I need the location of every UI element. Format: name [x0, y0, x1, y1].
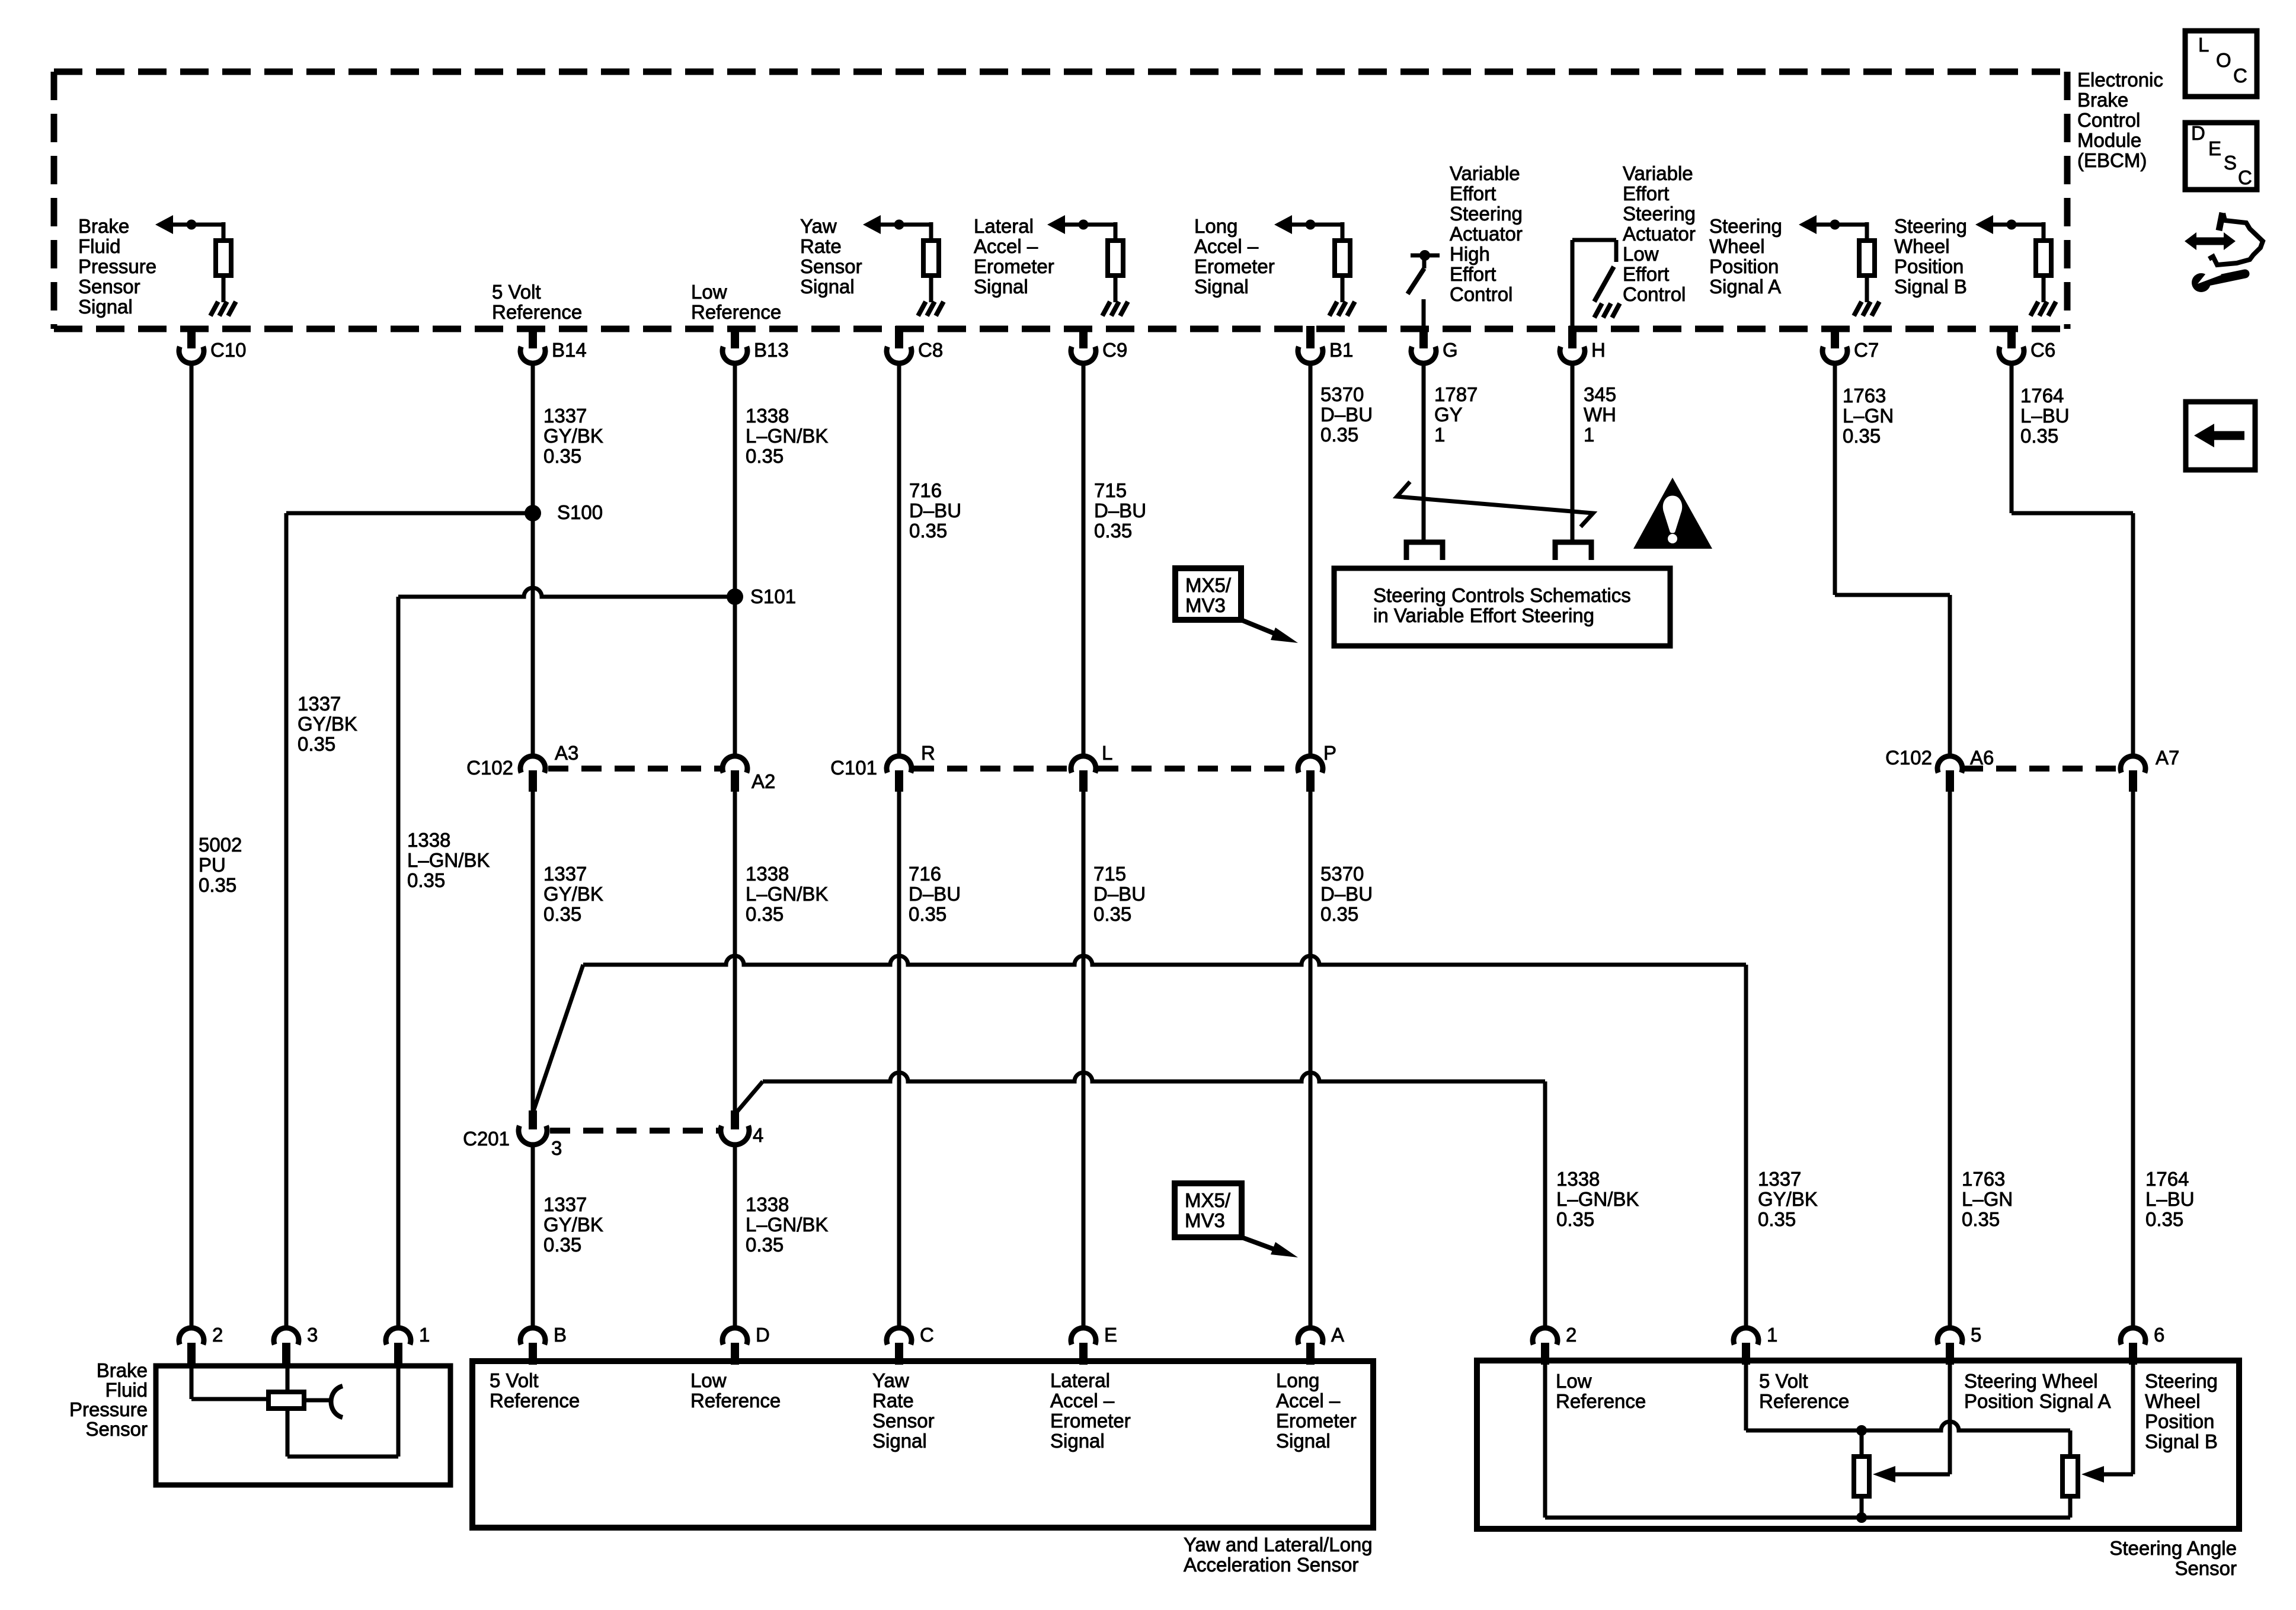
svg-text:0.35: 0.35: [543, 903, 581, 925]
switch G high effort: [1411, 254, 1440, 258]
wire: [1114, 222, 1118, 238]
svg-text:Sensor: Sensor: [800, 255, 862, 277]
svg-text:1338: 1338: [1556, 1168, 1600, 1190]
svg-text:Effort: Effort: [1450, 263, 1496, 285]
svg-text:4: 4: [753, 1124, 763, 1146]
svg-text:0.35: 0.35: [1094, 520, 1132, 542]
svg-text:Control: Control: [1623, 283, 1686, 305]
sensor connector pin B: [520, 1328, 545, 1345]
splice S101: [727, 588, 743, 605]
svg-text:C: C: [2238, 167, 2252, 188]
svg-text:1: 1: [1767, 1324, 1777, 1346]
svg-text:L–GN: L–GN: [1962, 1188, 2013, 1210]
resistor at B1 tap: [1335, 241, 1350, 276]
svg-text:Low: Low: [1556, 1370, 1592, 1392]
svg-text:L–GN/BK: L–GN/BK: [1556, 1188, 1639, 1210]
svg-text:B1: B1: [1329, 339, 1353, 361]
svg-text:Signal B: Signal B: [2145, 1430, 2218, 1452]
svg-text:Steering: Steering: [1894, 215, 1967, 237]
DESC icon box: [2185, 123, 2257, 190]
svg-text:L–GN: L–GN: [1843, 405, 1894, 427]
svg-text:Sensor: Sensor: [872, 1410, 935, 1432]
EBCM connector pin B14: [529, 326, 537, 348]
svg-text:L–BU: L–BU: [2020, 405, 2070, 427]
svg-text:5370: 5370: [1320, 383, 1364, 405]
svg-text:1337: 1337: [298, 693, 341, 715]
dashed connector line C201: [550, 1128, 718, 1134]
svg-text:(EBCM): (EBCM): [2077, 149, 2147, 171]
resistor at C7 tap: [1859, 241, 1875, 276]
svg-text:1: 1: [1434, 424, 1445, 446]
C201 pin 3: [529, 1110, 537, 1129]
svg-text:5: 5: [1971, 1324, 1981, 1346]
svg-text:Effort: Effort: [1623, 183, 1669, 204]
crossover arrow between G and H: [1397, 482, 1593, 527]
svg-text:Reference: Reference: [1556, 1390, 1646, 1412]
svg-text:Effort: Effort: [1450, 183, 1496, 204]
sensor connector pin A: [1298, 1328, 1323, 1345]
svg-text:1337: 1337: [1758, 1168, 1801, 1190]
svg-text:0.35: 0.35: [1758, 1208, 1796, 1230]
svg-text:G: G: [1443, 339, 1458, 361]
svg-text:Reference: Reference: [492, 301, 582, 323]
svg-text:D: D: [756, 1324, 770, 1346]
wire C7 jog: [1833, 361, 1837, 595]
svg-text:5 Volt: 5 Volt: [1759, 1370, 1808, 1392]
svg-text:S: S: [2224, 152, 2237, 174]
wire G to steering controls: [1422, 361, 1426, 541]
dashed connector line C102 A6-A7: [1963, 766, 2120, 772]
svg-text:Fluid: Fluid: [78, 235, 121, 257]
svg-text:Effort: Effort: [1623, 263, 1669, 285]
svg-text:E: E: [1104, 1324, 1117, 1346]
wire A2 to C201 pin 4: [733, 792, 737, 1113]
wire C6 jog: [2010, 361, 2014, 513]
resistor at C6 tap: [2036, 241, 2051, 276]
svg-text:C102: C102: [466, 757, 513, 779]
svg-text:PU: PU: [199, 854, 226, 876]
svg-text:0.35: 0.35: [543, 445, 581, 467]
sensor connector pin 6: [2121, 1328, 2145, 1345]
wire C10 to sensor pin 2: [190, 361, 194, 1329]
wire: [2042, 222, 2046, 238]
svg-text:2: 2: [1566, 1324, 1576, 1346]
Brake Fluid Pressure Sensor box: [156, 1366, 450, 1485]
svg-text:Fluid: Fluid: [105, 1379, 148, 1401]
svg-text:1338: 1338: [746, 863, 789, 885]
svg-text:Signal A: Signal A: [1709, 276, 1781, 297]
warning triangle: [1633, 478, 1712, 549]
svg-text:GY/BK: GY/BK: [1758, 1188, 1818, 1210]
ground at B1 tap: [1329, 302, 1337, 316]
wire: [222, 278, 226, 302]
ground at C8 tap: [918, 302, 926, 316]
sensor connector pin 2: [179, 1328, 204, 1345]
C102 pin A6: [1937, 756, 1962, 773]
svg-text:5002: 5002: [199, 834, 242, 856]
svg-text:1763: 1763: [1843, 385, 1886, 406]
resistor at C8 tap: [923, 241, 939, 276]
svg-text:5370: 5370: [1320, 863, 1364, 885]
svg-text:S100: S100: [557, 501, 603, 523]
svg-text:B14: B14: [552, 339, 587, 361]
sensor connector pin D: [722, 1328, 747, 1345]
svg-text:Sensor: Sensor: [85, 1418, 148, 1440]
svg-text:Brake: Brake: [78, 215, 129, 237]
node at C9: [1079, 220, 1089, 230]
EBCM module dashed box: [54, 69, 2067, 75]
svg-text:C7: C7: [1854, 339, 1879, 361]
svg-text:1338: 1338: [407, 829, 450, 851]
svg-text:C: C: [2233, 65, 2247, 87]
pressure sensing resistor: [268, 1392, 304, 1409]
wire: [929, 278, 933, 302]
svg-text:MV3: MV3: [1185, 1209, 1225, 1231]
svg-text:C9: C9: [1102, 339, 1127, 361]
svg-text:Wheel: Wheel: [1894, 235, 1950, 257]
node at C7: [1830, 220, 1840, 230]
EBCM connector pin C9: [1079, 326, 1088, 348]
svg-text:MV3: MV3: [1185, 594, 1226, 616]
svg-text:Position: Position: [1709, 255, 1779, 277]
svg-text:B13: B13: [754, 339, 789, 361]
svg-text:Rate: Rate: [872, 1390, 914, 1411]
svg-text:C6: C6: [2030, 339, 2055, 361]
Steering Angle Sensor box: [1477, 1361, 2239, 1529]
dashed connector line C101 L-P: [1098, 766, 1296, 772]
svg-text:Accel –: Accel –: [1050, 1390, 1115, 1411]
svg-text:GY/BK: GY/BK: [298, 713, 357, 735]
splice S100: [525, 505, 541, 521]
svg-text:Low: Low: [690, 1369, 727, 1391]
svg-text:Erometer: Erometer: [1276, 1410, 1357, 1432]
svg-text:Sensor: Sensor: [2175, 1557, 2237, 1579]
svg-text:L: L: [2198, 34, 2209, 56]
C10 signal tap arrow: [172, 223, 223, 227]
svg-text:2: 2: [212, 1324, 223, 1346]
dashed connector line C101 R-L: [914, 766, 1069, 772]
wire A3 to C201 pin 3: [531, 792, 535, 1113]
svg-text:Steering: Steering: [2145, 1370, 2218, 1392]
svg-text:C101: C101: [830, 757, 877, 779]
svg-text:C8: C8: [918, 339, 943, 361]
svg-text:0.35: 0.35: [1962, 1208, 2000, 1230]
svg-text:Steering Angle: Steering Angle: [2109, 1537, 2237, 1559]
wire B14 to C102 A3: [531, 361, 535, 757]
Yaw and Lateral/Long Acceleration Sensor box: [472, 1361, 1373, 1528]
svg-text:716: 716: [909, 863, 941, 885]
svg-text:D–BU: D–BU: [1320, 404, 1373, 425]
svg-text:MX5/: MX5/: [1185, 1189, 1231, 1211]
svg-text:Brake: Brake: [2077, 89, 2128, 111]
svg-text:Variable: Variable: [1623, 162, 1693, 184]
svg-text:0.35: 0.35: [746, 903, 784, 925]
svg-text:1: 1: [419, 1324, 430, 1346]
svg-text:H: H: [1591, 339, 1606, 361]
wire A7 to steering pin 6: [2131, 792, 2135, 1329]
MX5/MV3 callout box 2: [1175, 1183, 1242, 1237]
svg-text:Control: Control: [2077, 109, 2140, 131]
svg-text:Signal: Signal: [974, 276, 1028, 297]
ground at switch H: [1594, 303, 1602, 318]
svg-text:0.35: 0.35: [1093, 903, 1131, 925]
svg-text:Control: Control: [1450, 283, 1512, 305]
svg-text:Wheel: Wheel: [2145, 1390, 2201, 1412]
svg-text:Reference: Reference: [1759, 1390, 1849, 1412]
svg-text:Position: Position: [2145, 1410, 2214, 1432]
svg-text:1763: 1763: [1962, 1168, 2005, 1190]
svg-text:Signal: Signal: [1276, 1430, 1331, 1452]
ground at C10 tap: [210, 302, 218, 316]
svg-text:Steering: Steering: [1450, 203, 1523, 225]
svg-text:1764: 1764: [2145, 1168, 2189, 1190]
wire H to steering controls: [1571, 361, 1575, 541]
svg-text:L–BU: L–BU: [2145, 1188, 2195, 1210]
svg-text:Pressure: Pressure: [69, 1398, 148, 1420]
svg-text:5 Volt: 5 Volt: [490, 1369, 539, 1391]
svg-text:Erometer: Erometer: [974, 255, 1054, 277]
wire S101 branch: [398, 588, 735, 597]
svg-text:P: P: [1323, 742, 1336, 764]
svg-text:Steering: Steering: [1623, 203, 1696, 225]
C101 pin R: [887, 756, 912, 773]
svg-text:Sensor: Sensor: [78, 276, 140, 297]
C6 signal tap arrow: [1993, 223, 2044, 227]
wiper A from pin 5: [1948, 1365, 1952, 1474]
svg-text:D–BU: D–BU: [1093, 883, 1146, 905]
svg-text:Wheel: Wheel: [1709, 235, 1765, 257]
svg-text:1787: 1787: [1434, 383, 1478, 405]
svg-text:Accel –: Accel –: [1194, 235, 1259, 257]
svg-text:D: D: [2191, 122, 2205, 144]
svg-text:3: 3: [551, 1137, 562, 1159]
svg-text:Reference: Reference: [691, 301, 781, 323]
node at C6: [2007, 220, 2017, 230]
svg-text:Low: Low: [691, 281, 727, 303]
EBCM connector pin G: [1419, 326, 1428, 348]
adjust icon wrench: [2202, 274, 2245, 283]
svg-text:Signal: Signal: [800, 276, 855, 297]
C9 signal tap arrow: [1064, 223, 1115, 227]
LOC icon box: [2185, 31, 2257, 97]
svg-text:D–BU: D–BU: [1094, 500, 1146, 521]
svg-text:0.35: 0.35: [1843, 425, 1881, 447]
svg-text:Erometer: Erometer: [1050, 1410, 1131, 1432]
C201 pin 4: [731, 1110, 739, 1129]
adjust icon outline: [2219, 213, 2223, 231]
svg-text:O: O: [2216, 49, 2231, 71]
pressure port symbol: [331, 1386, 343, 1417]
svg-text:Steering Wheel: Steering Wheel: [1964, 1370, 2098, 1392]
svg-text:C10: C10: [210, 339, 247, 361]
svg-text:Yaw and Lateral/Long: Yaw and Lateral/Long: [1184, 1534, 1373, 1555]
svg-text:Yaw: Yaw: [872, 1369, 909, 1391]
svg-text:High: High: [1450, 243, 1490, 265]
wiper B from pin 6: [2131, 1365, 2135, 1474]
svg-text:0.35: 0.35: [1320, 424, 1358, 446]
svg-text:1337: 1337: [543, 1193, 587, 1215]
svg-text:0.35: 0.35: [1320, 903, 1358, 925]
svg-text:Signal: Signal: [1050, 1430, 1105, 1452]
wire C9 to C101 L: [1082, 361, 1086, 757]
svg-text:716: 716: [909, 479, 942, 501]
svg-text:in Variable Effort Steering: in Variable Effort Steering: [1373, 604, 1594, 626]
svg-text:Position Signal A: Position Signal A: [1964, 1390, 2111, 1412]
internal: low reference bus: [1543, 1365, 1547, 1518]
svg-text:5 Volt: 5 Volt: [492, 281, 541, 303]
svg-text:0.35: 0.35: [909, 903, 946, 925]
node at B1: [1306, 220, 1316, 230]
resistor at C10 tap: [216, 241, 231, 276]
svg-text:0.35: 0.35: [407, 869, 445, 891]
potentiometer B: [2062, 1457, 2078, 1496]
svg-text:L–GN/BK: L–GN/BK: [746, 1214, 828, 1235]
svg-text:0.35: 0.35: [746, 445, 784, 467]
potentiometer A: [1854, 1457, 1869, 1496]
svg-text:0.35: 0.35: [746, 1234, 784, 1256]
wire: [929, 222, 933, 238]
svg-text:Signal: Signal: [872, 1430, 927, 1452]
svg-text:0.35: 0.35: [543, 1234, 581, 1256]
wire: [1865, 222, 1869, 238]
node at C8: [894, 220, 904, 230]
terminal bracket G: [1406, 542, 1443, 560]
svg-text:C201: C201: [463, 1128, 510, 1150]
svg-text:Rate: Rate: [800, 235, 842, 257]
svg-text:1337: 1337: [543, 405, 587, 427]
C102 pin A2: [722, 756, 747, 773]
svg-text:A6: A6: [1970, 747, 1994, 769]
wire C201 pin3 to sensor pin B: [531, 1144, 535, 1329]
svg-text:Reference: Reference: [690, 1390, 781, 1411]
wire R to sensor pin C: [897, 792, 901, 1329]
svg-text:L–GN/BK: L–GN/BK: [746, 425, 828, 447]
svg-text:R: R: [921, 742, 935, 764]
svg-text:Long: Long: [1276, 1369, 1319, 1391]
svg-text:A3: A3: [555, 742, 578, 764]
wire P to sensor pin A: [1309, 792, 1313, 1329]
sensor connector pin 1: [1734, 1328, 1758, 1345]
svg-text:0.35: 0.35: [2145, 1208, 2183, 1230]
callout arrow 2: [1242, 1237, 1280, 1251]
svg-text:Signal: Signal: [78, 296, 133, 318]
svg-text:Lateral: Lateral: [1050, 1369, 1110, 1391]
svg-text:Actuator: Actuator: [1450, 223, 1523, 245]
resistor at C9 tap: [1108, 241, 1123, 276]
wire: [1114, 278, 1118, 302]
svg-text:S101: S101: [750, 585, 796, 607]
svg-text:Signal B: Signal B: [1894, 276, 1967, 297]
C102 pin A3: [520, 756, 545, 773]
C102 pin A7: [2121, 756, 2145, 773]
svg-text:Acceleration Sensor: Acceleration Sensor: [1184, 1554, 1358, 1576]
svg-text:6: 6: [2154, 1324, 2164, 1346]
wire A6 to steering pin 5: [1948, 792, 1952, 1329]
wire B1 to C101 P: [1309, 361, 1313, 757]
svg-text:715: 715: [1094, 479, 1127, 501]
wire L to sensor pin E: [1082, 792, 1086, 1329]
wire: [2042, 278, 2046, 302]
terminal bracket H: [1555, 542, 1591, 560]
svg-text:3: 3: [307, 1324, 318, 1346]
svg-text:1338: 1338: [746, 1193, 789, 1215]
svg-text:D–BU: D–BU: [909, 883, 961, 905]
svg-text:D–BU: D–BU: [909, 500, 961, 521]
svg-text:0.35: 0.35: [1556, 1208, 1594, 1230]
svg-text:L–GN/BK: L–GN/BK: [407, 849, 490, 871]
svg-text:A2: A2: [752, 770, 775, 792]
svg-text:1: 1: [1584, 424, 1594, 446]
EBCM connector pin C10: [187, 326, 196, 348]
adjust icon double arrow: [2193, 238, 2227, 245]
EBCM connector pin B1: [1306, 326, 1315, 348]
B1 signal tap arrow: [1291, 223, 1342, 227]
sensor connector pin 2: [1533, 1328, 1558, 1345]
svg-text:Lateral: Lateral: [974, 215, 1034, 237]
callout arrow 1: [1241, 620, 1280, 636]
C101 pin L: [1071, 756, 1096, 773]
svg-text:A7: A7: [2156, 747, 2179, 769]
ground at C9 tap: [1102, 302, 1110, 316]
svg-text:GY/BK: GY/BK: [543, 425, 603, 447]
wire S100 branch: [286, 511, 533, 516]
EBCM connector pin C8: [895, 326, 903, 348]
svg-text:1337: 1337: [543, 863, 587, 885]
ground at C6 tap: [2030, 302, 2038, 316]
C101 pin P: [1298, 756, 1323, 773]
svg-text:Variable: Variable: [1450, 162, 1520, 184]
MX5/MV3 callout box 1: [1175, 568, 1241, 620]
EBCM connector pin B13: [731, 326, 739, 348]
svg-text:GY: GY: [1434, 404, 1463, 425]
svg-text:1764: 1764: [2020, 385, 2064, 406]
svg-text:Electronic: Electronic: [2077, 69, 2163, 91]
svg-text:0.35: 0.35: [199, 874, 236, 896]
svg-text:L: L: [1102, 742, 1112, 764]
wire: [222, 222, 226, 238]
wire: [1865, 278, 1869, 302]
svg-text:C: C: [920, 1324, 934, 1346]
sensor connector pin E: [1071, 1328, 1096, 1345]
svg-text:Brake: Brake: [97, 1359, 148, 1381]
switch H low effort: [1571, 240, 1575, 329]
svg-text:Position: Position: [1894, 255, 1964, 277]
svg-text:1338: 1338: [746, 405, 789, 427]
svg-text:D–BU: D–BU: [1320, 883, 1373, 905]
sensor internal wires: [190, 1365, 194, 1399]
svg-text:Yaw: Yaw: [800, 215, 837, 237]
svg-text:Accel –: Accel –: [974, 235, 1038, 257]
svg-text:B: B: [554, 1324, 567, 1346]
svg-text:Accel –: Accel –: [1276, 1390, 1341, 1411]
svg-text:Reference: Reference: [490, 1390, 580, 1411]
svg-text:GY/BK: GY/BK: [543, 883, 603, 905]
svg-text:Erometer: Erometer: [1194, 255, 1275, 277]
bus wire from C201 pin4 to steering pin 2: [763, 1073, 1545, 1081]
svg-text:0.35: 0.35: [2020, 425, 2058, 447]
wire: [1341, 222, 1345, 238]
wire: [1422, 299, 1426, 329]
svg-text:WH: WH: [1584, 404, 1616, 425]
svg-text:E: E: [2208, 137, 2221, 159]
svg-text:Signal: Signal: [1194, 276, 1249, 297]
svg-text:715: 715: [1093, 863, 1126, 885]
wire C8 to C101 R: [897, 361, 901, 757]
wire C201 pin4 to sensor pin D: [733, 1144, 737, 1329]
left arrow icon box: [2186, 402, 2255, 470]
ground at C7 tap: [1854, 302, 1862, 316]
dashed connector line C102: [548, 766, 720, 772]
